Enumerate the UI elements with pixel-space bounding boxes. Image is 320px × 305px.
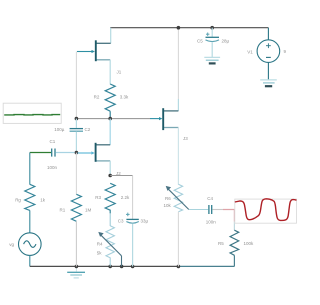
wire node to C3 branch [110, 176, 132, 220]
junction node top rail at J3 drain [177, 26, 181, 30]
source vg (AC) [9, 233, 41, 256]
ground at rail [67, 266, 85, 278]
svg-text:33µ: 33µ [141, 218, 149, 223]
svg-text:1k: 1k [40, 197, 46, 202]
resistor R3 2.2k [95, 183, 130, 213]
junction node at 76,152 [75, 151, 79, 155]
scope trace output (red) [235, 199, 297, 223]
svg-text:1M: 1M [85, 208, 92, 213]
capacitor C4 100n [206, 196, 217, 224]
resistor R2 3.3k [94, 84, 129, 111]
svg-text:C3: C3 [118, 218, 124, 223]
wire node to R1 [75, 153, 77, 195]
svg-text:J1: J1 [117, 70, 122, 75]
wire J1 source to R2 [109, 60, 111, 85]
wire J1 gate drop (left vertical) [75, 52, 77, 119]
resistor R5 100k [218, 230, 254, 255]
capacitor C2 100u [54, 119, 90, 153]
capacitor C3 33u [118, 213, 149, 267]
junction node at 76,118 [75, 117, 79, 121]
svg-text:100n: 100n [206, 219, 217, 224]
wire gate bus node to J3 gate [76, 118, 150, 120]
resistor Rg 1k [15, 184, 46, 210]
svg-text:R5: R5 [218, 241, 224, 246]
svg-text:R4: R4 [97, 241, 103, 246]
svg-text:100k: 100k [244, 241, 255, 246]
wire top supply rail [110, 27, 268, 29]
svg-text:R2: R2 [94, 95, 100, 100]
wire Rg to vg [29, 210, 31, 233]
svg-text:vg: vg [9, 242, 14, 247]
wire down to R5 [233, 222, 235, 231]
ground below C5 [204, 57, 220, 63]
capacitor C1 100n [30, 139, 75, 170]
wire J3 source down to R6 [177, 128, 179, 185]
wire R4 to rail [109, 262, 111, 266]
junction node ground rail at R4 wiper [120, 265, 124, 269]
transistor J2 [78, 119, 122, 176]
wire vg to rail [29, 255, 31, 266]
svg-text:C5: C5 [197, 38, 203, 43]
svg-text:R1: R1 [60, 208, 66, 213]
svg-text:V1: V1 [247, 49, 253, 54]
transistor J3 [150, 28, 188, 141]
svg-text:2.2k: 2.2k [121, 195, 130, 200]
resistor R1 1M [60, 194, 92, 221]
svg-text:3.3k: 3.3k [120, 95, 129, 100]
potentiometer R4 5k [97, 226, 122, 267]
wire R5 to rail [233, 255, 235, 266]
svg-text:C1: C1 [50, 139, 56, 144]
svg-text:9: 9 [284, 49, 287, 54]
wire bottom ground rail [30, 265, 179, 267]
potentiometer R6 10k [164, 184, 189, 212]
scope trace input (green) [3, 103, 61, 123]
wire bottom rail right part [178, 265, 234, 267]
wire R6 wiper to C4 [189, 209, 208, 211]
capacitor C5 28u [197, 28, 230, 57]
svg-text:28µ: 28µ [222, 38, 230, 43]
svg-text:C2: C2 [85, 127, 91, 132]
wire output node (pink) [223, 210, 234, 222]
wire R3 to R4 [109, 213, 111, 226]
wire C4 to output node [213, 209, 224, 211]
wire R1 to rail [75, 221, 77, 266]
wire C1 left down to Rg [29, 153, 31, 185]
wire R6 bottom to rail [177, 212, 179, 267]
svg-text:R3: R3 [95, 195, 101, 200]
svg-text:R6: R6 [165, 196, 171, 201]
junction node ground rail at R6 [177, 265, 181, 269]
junction node ground rail at C3 [131, 265, 135, 269]
junction node at 110,175 [108, 174, 112, 178]
svg-text:5k: 5k [97, 251, 103, 256]
svg-text:J3: J3 [183, 136, 188, 141]
junction node top rail at C5 [210, 26, 214, 30]
svg-text:10k: 10k [164, 203, 172, 208]
svg-text:Rg: Rg [15, 198, 21, 203]
junction node ground rail at R4 [108, 265, 112, 269]
wire R2 bottom to node [109, 111, 111, 118]
ground below V1 [260, 80, 277, 86]
svg-text:100µ: 100µ [54, 127, 65, 132]
svg-text:100n: 100n [47, 165, 58, 170]
source V1 [247, 28, 286, 80]
svg-text:C4: C4 [207, 196, 213, 201]
transistor J1 [77, 28, 122, 75]
junction node ground rail at R1 [75, 265, 79, 269]
junction node at 110,118 [108, 117, 112, 121]
